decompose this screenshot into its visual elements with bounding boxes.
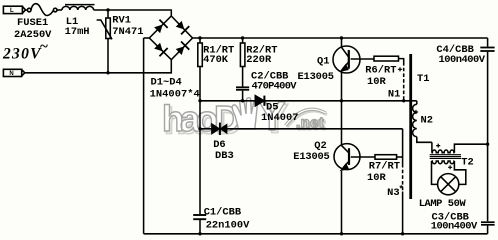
svg-text:10R: 10R [367,76,386,88]
capacitor C2 [236,87,249,101]
svg-text:N: N [9,71,13,77]
svg-text:DB3: DB3 [215,150,234,162]
wire T2 primary return to right bus [454,144,487,153]
wire midpoint line [200,100,417,102]
svg-text:10R: 10R [367,172,386,184]
junction RV1 bottom [106,71,109,74]
winding N1 [403,62,405,101]
fuse FUSE1 [26,4,62,16]
junction R1 top bus [198,36,201,39]
svg-text:N1: N1 [388,88,400,100]
wire lamp left [432,161,438,184]
svg-text:470P400V: 470P400V [252,81,298,93]
terminal L [3,6,25,13]
svg-text:T2: T2 [461,156,473,168]
junction R1 midpoint line [198,99,201,102]
svg-text:RV1: RV1 [112,15,131,27]
svg-text:R6/RT: R6/RT [365,64,396,76]
resistor R2 [240,38,245,86]
winding N3 [402,129,404,234]
junction RV1 top [106,8,109,11]
transformer T2 secondary [432,161,455,164]
svg-text:D6: D6 [213,139,225,151]
junction R2 top bus [241,36,244,39]
svg-text:100n400V: 100n400V [431,220,478,232]
wire lamp right [454,161,465,184]
wire bottom bus [144,233,488,235]
svg-text:100n400V: 100n400V [439,54,486,66]
junction C1 bottom bus [198,232,201,235]
watermark haoDY.net [162,93,327,142]
junction Q2 emitter bottom bus [340,232,343,235]
bridge diode arrows [153,19,190,57]
wire N to bridge [25,60,172,73]
junction C2 midpoint line [241,99,244,102]
diode D bridge upper-left [153,19,168,34]
resistor R1 [198,38,203,214]
svg-text:230V: 230V [2,46,42,63]
svg-text:470K: 470K [203,54,229,66]
transformer T1 core [409,54,412,199]
svg-text:FUSE1: FUSE1 [17,17,48,29]
svg-text:22n100V: 22n100V [206,220,250,232]
junction Q1 emitter Q2 collector [340,99,343,102]
diode D bridge upper-right [175,20,190,35]
diode D bridge lower-left [153,42,168,57]
svg-text:17mH: 17mH [65,26,90,38]
svg-text:E13005: E13005 [298,71,335,83]
diode D5 [255,96,264,106]
junction T2 return right bus [486,143,489,146]
svg-text:7N471: 7N471 [112,26,143,38]
lamp LAMP 50W [438,174,459,195]
svg-text:LAMP 50W: LAMP 50W [419,198,467,210]
diode D bridge lower-right [175,41,190,56]
svg-text:1N4007*4: 1N4007*4 [150,88,200,100]
bridge rectifier D1~D4 [144,16,193,60]
transistor Q2 [334,101,375,234]
capacitor C4 [480,38,494,221]
junction N1 midpoint line [402,99,405,102]
watermark hand glyph [232,98,257,129]
svg-text:220R: 220R [246,54,272,66]
wire DC- left vertical [143,38,145,234]
winding N2 [413,101,432,143]
capacitor C3 [481,222,495,234]
polarity + N1 [398,67,402,71]
resistor R7 [375,155,403,160]
varistor RV1 [97,10,112,73]
inductor L1 [62,5,95,10]
transformer T2 core [430,155,461,159]
svg-text:~: ~ [40,39,49,55]
svg-text:*: * [399,185,404,195]
transistor Q1 [333,38,374,101]
wire top bus [193,37,488,39]
svg-text:Q1: Q1 [317,56,329,68]
svg-text:E13005: E13005 [293,151,330,163]
junction Q1 collector bus [340,36,343,39]
junction N3 bottom bus [401,232,404,235]
svg-text:T1: T1 [417,73,429,85]
resistor R6 [374,56,404,62]
terminal N [3,69,24,76]
polarity + T2 top [436,144,440,148]
svg-text:L: L [10,8,14,14]
polarity + N2 [414,110,418,114]
diac D6 [212,123,227,135]
wire diac line [200,128,403,130]
capacitor C1 [193,215,206,234]
svg-text:N2: N2 [421,114,433,126]
svg-text:D1~D4: D1~D4 [151,77,182,89]
wire top to bridge [94,10,172,16]
svg-text:R7/RT: R7/RT [369,161,400,173]
polarity + T2 bottom [448,165,452,169]
svg-text:1N4007: 1N4007 [261,112,298,124]
transformer T2 primary [432,142,455,152]
junction R1 diac line [198,127,201,130]
svg-text:C1/CBB: C1/CBB [204,207,242,219]
